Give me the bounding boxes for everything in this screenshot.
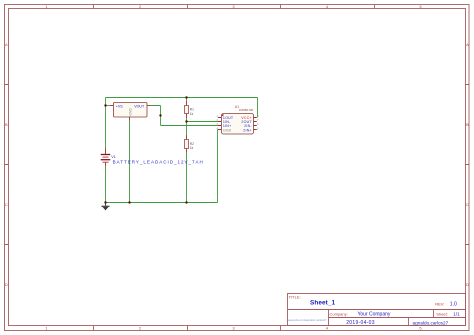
svg-text:A: A (5, 42, 8, 47)
svg-text:+VS: +VS (116, 104, 123, 108)
svg-text:LM358-SR: LM358-SR (239, 108, 254, 112)
svg-text:Your Company: Your Company (358, 311, 391, 317)
svg-text:C: C (5, 202, 8, 207)
svg-text:easyeda.com/aqnaldo.carlos27: easyeda.com/aqnaldo.carlos27 (288, 318, 327, 322)
svg-text:A: A (466, 42, 469, 47)
svg-text:1k: 1k (190, 146, 194, 150)
svg-text:Sheet_1: Sheet_1 (310, 300, 336, 307)
svg-text:Company:: Company: (330, 311, 348, 316)
svg-text:1.0: 1.0 (450, 301, 457, 307)
svg-text:R1: R1 (190, 107, 194, 111)
svg-text:GND: GND (128, 108, 132, 116)
svg-text:agnaldo.carlos27: agnaldo.carlos27 (413, 320, 449, 325)
svg-text:1k: 1k (190, 112, 194, 116)
svg-text:BATTERY_LEADACID_12V_7AH: BATTERY_LEADACID_12V_7AH (113, 159, 204, 164)
svg-text:D: D (466, 282, 469, 287)
svg-text:TITLE:: TITLE: (289, 295, 301, 300)
svg-text:D: D (5, 282, 8, 287)
svg-text:1/1: 1/1 (453, 311, 460, 316)
svg-text:VOUT: VOUT (134, 104, 145, 108)
svg-text:2IN+: 2IN+ (243, 128, 252, 132)
svg-text:2019-04-03: 2019-04-03 (346, 320, 375, 326)
svg-text:Sheet:: Sheet: (436, 311, 448, 316)
svg-text:REV:: REV: (435, 301, 444, 306)
svg-text:GND: GND (223, 128, 232, 132)
svg-text:C: C (466, 202, 469, 207)
svg-text:B: B (466, 122, 469, 127)
svg-text:B: B (5, 122, 8, 127)
